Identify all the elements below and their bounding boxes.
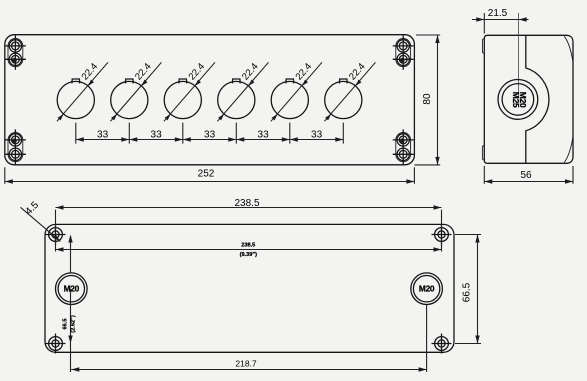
svg-text:66.5: 66.5 (62, 319, 68, 330)
svg-text:M20: M20 (64, 283, 80, 293)
svg-text:M20: M20 (419, 283, 435, 293)
svg-text:33: 33 (97, 130, 109, 141)
svg-text:33: 33 (311, 130, 323, 141)
svg-text:33: 33 (258, 130, 270, 141)
svg-text:33: 33 (204, 130, 216, 141)
svg-text:66.5: 66.5 (461, 282, 472, 302)
svg-text:56: 56 (520, 170, 532, 181)
svg-text:33: 33 (151, 130, 163, 141)
svg-text:80: 80 (422, 93, 433, 105)
svg-text:M20M25: M20M25 (511, 92, 528, 108)
svg-text:252: 252 (198, 169, 215, 180)
svg-text:(9.39”): (9.39”) (240, 252, 258, 258)
svg-text:238.5: 238.5 (241, 243, 255, 249)
svg-text:238.5: 238.5 (234, 198, 259, 209)
svg-text:218.7: 218.7 (235, 358, 257, 368)
svg-text:(2.62”): (2.62”) (71, 315, 77, 333)
svg-text:21.5: 21.5 (488, 8, 508, 19)
